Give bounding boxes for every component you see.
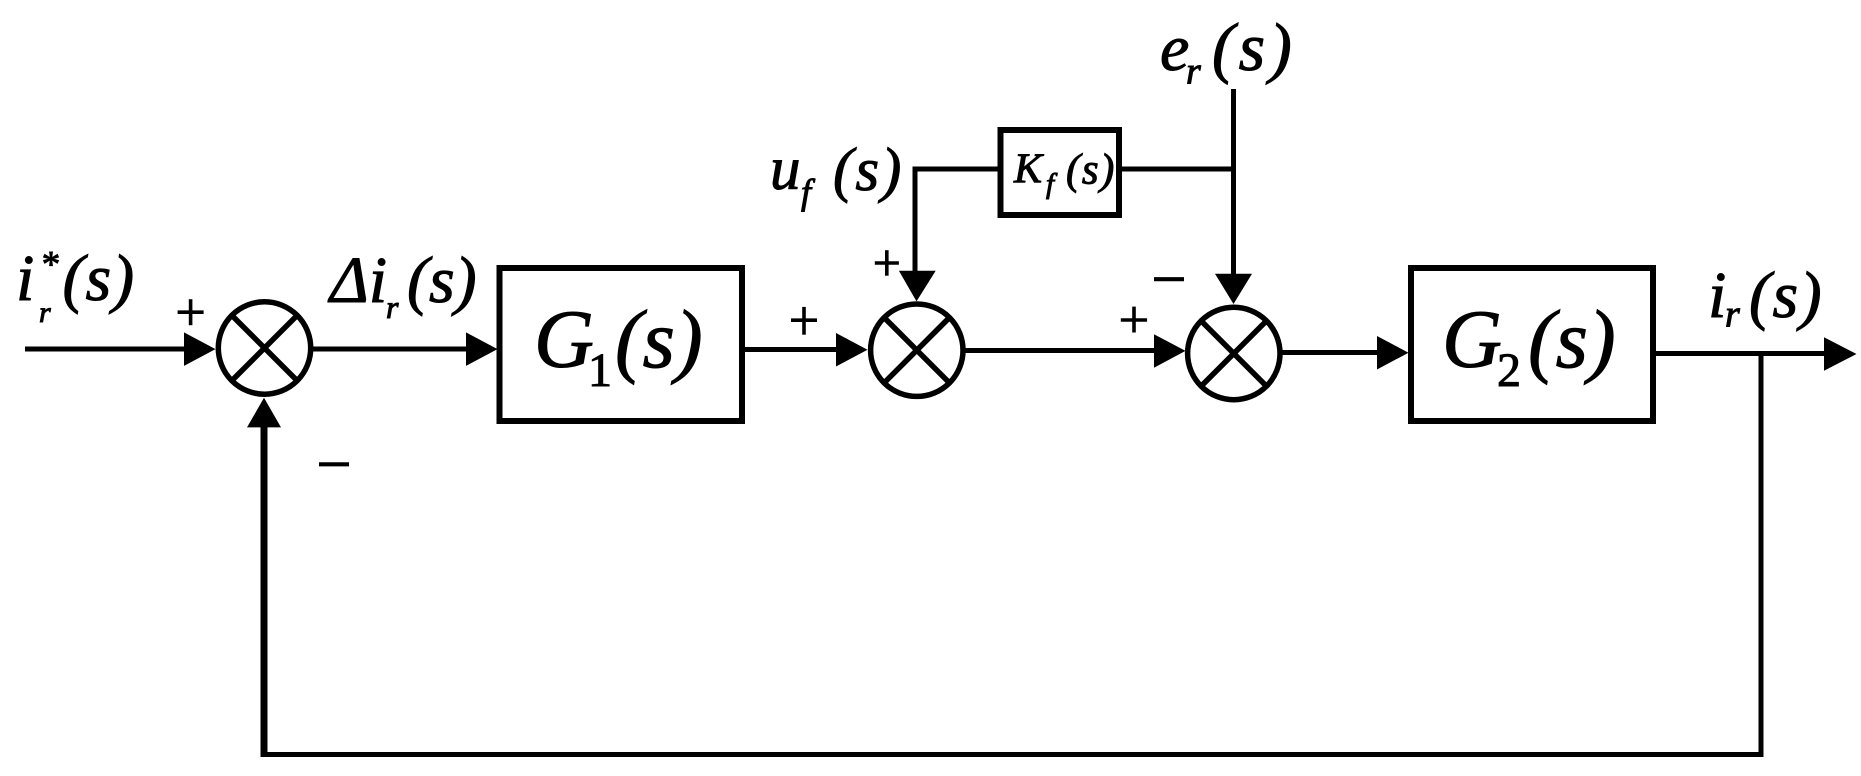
node -: minus sign at S1 bottom input xyxy=(319,462,349,466)
arrowhead into S1 xyxy=(184,332,216,366)
arrowhead into G2 xyxy=(1377,336,1409,370)
block G1 rectangle xyxy=(500,268,743,421)
arrowhead at output xyxy=(1824,337,1857,371)
svg-text:r: r xyxy=(386,289,399,325)
svg-text:(s): (s) xyxy=(1749,259,1823,332)
svg-text:f: f xyxy=(1046,168,1058,200)
svg-text:G: G xyxy=(534,293,594,385)
svg-text:(s): (s) xyxy=(615,293,703,385)
wire: G1 to summing junction S2 xyxy=(745,347,838,352)
block Kf rectangle xyxy=(1001,130,1120,215)
wire: u_f branch vertical down to S2 xyxy=(913,169,918,273)
svg-text:1: 1 xyxy=(588,344,612,397)
svg-text:i: i xyxy=(1708,259,1726,332)
svg-text:r: r xyxy=(1186,51,1201,93)
svg-text:G: G xyxy=(1442,293,1502,385)
arrowhead up into S1 bottom xyxy=(247,398,281,428)
wire: Kf to e_r line horizontal xyxy=(1122,167,1236,172)
node -: minus sign at S3 top input xyxy=(1154,277,1184,281)
arrowhead into S2 xyxy=(836,333,868,367)
svg-text:(s): (s) xyxy=(1528,293,1616,385)
node +: plus sign at S2 top input xyxy=(875,250,899,276)
wire: u_f branch horizontal into Kf xyxy=(913,167,999,172)
arrowhead down into S2 top xyxy=(899,271,936,302)
svg-text:i: i xyxy=(16,242,34,315)
wire: S2 to summing junction S3 xyxy=(966,348,1157,353)
svg-text:r: r xyxy=(1725,294,1740,336)
wire: feedback bottom horizontal xyxy=(262,752,1764,757)
wire: input line into summing junction S1 xyxy=(25,347,186,352)
block G2 rectangle xyxy=(1411,268,1653,421)
wire: S3 to block G2 xyxy=(1283,350,1380,355)
wire: feedback tap vertical right xyxy=(1759,354,1764,758)
summing junction S1 (circle with X) xyxy=(218,302,310,394)
svg-text:(s): (s) xyxy=(407,244,477,317)
svg-text:K: K xyxy=(1013,147,1044,193)
node +: plus sign at S1 input xyxy=(178,299,204,325)
svg-text:(s): (s) xyxy=(1066,147,1116,194)
arrowhead into G1 xyxy=(466,332,498,366)
wire: feedback vertical left up to S1 xyxy=(261,426,268,757)
arrowhead into S3 xyxy=(1154,334,1186,368)
svg-text:*: * xyxy=(40,245,59,286)
svg-text:(s): (s) xyxy=(63,242,136,315)
node +: plus sign at S2 left input xyxy=(791,307,817,335)
summing junction S2 (circle with X) xyxy=(871,304,963,396)
arrowhead down into S3 top xyxy=(1215,274,1252,304)
svg-text:(s): (s) xyxy=(833,137,903,204)
svg-text:u: u xyxy=(770,136,801,203)
svg-text:Δi: Δi xyxy=(327,244,387,317)
wire: G2 output line xyxy=(1656,351,1826,356)
svg-text:e: e xyxy=(1160,12,1189,85)
node +: plus sign at S3 left input xyxy=(1121,307,1147,333)
svg-text:r: r xyxy=(39,296,51,329)
svg-text:f: f xyxy=(801,172,816,212)
svg-text:(s): (s) xyxy=(1212,9,1296,85)
wire: e_r vertical line down to S3 xyxy=(1231,89,1236,276)
wire: S1 to block G1 xyxy=(313,347,468,352)
summing junction S3 (circle with X) xyxy=(1188,307,1280,399)
svg-text:2: 2 xyxy=(1497,344,1521,397)
